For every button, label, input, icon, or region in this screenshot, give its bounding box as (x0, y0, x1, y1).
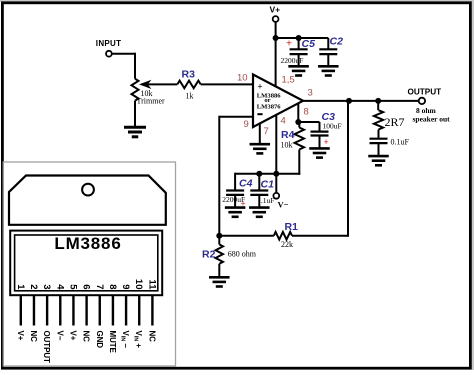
svg-text:NC: NC (147, 331, 156, 343)
svg-text:MUTE: MUTE (108, 331, 117, 354)
svg-text:8: 8 (304, 107, 309, 118)
svg-text:1k: 1k (186, 92, 194, 101)
svg-text:0.1uF: 0.1uF (391, 138, 410, 147)
svg-text:100uF: 100uF (323, 122, 342, 131)
svg-text:NC: NC (29, 331, 38, 343)
svg-text:.1uF: .1uF (261, 196, 275, 205)
svg-text:1: 1 (15, 284, 26, 290)
svg-text:+: + (257, 83, 262, 93)
svg-text:9: 9 (120, 284, 131, 289)
svg-text:OUTPUT: OUTPUT (408, 88, 442, 97)
svg-text:V+: V+ (16, 331, 25, 341)
svg-text:LM3876: LM3876 (257, 104, 282, 111)
svg-text:9: 9 (244, 119, 249, 130)
svg-text:2: 2 (28, 284, 39, 289)
svg-text:V+: V+ (68, 331, 77, 341)
svg-text:3: 3 (41, 284, 52, 289)
svg-text:speaker out: speaker out (413, 115, 451, 124)
svg-text:8: 8 (107, 284, 118, 289)
svg-text:10: 10 (237, 73, 248, 84)
svg-text:C2: C2 (330, 36, 344, 48)
svg-text:R1: R1 (285, 221, 299, 233)
svg-text:V−: V− (55, 331, 64, 341)
svg-text:OUTPUT: OUTPUT (42, 331, 51, 364)
svg-text:7: 7 (264, 126, 269, 137)
svg-text:+: + (241, 199, 246, 209)
svg-text:Trimmer: Trimmer (137, 97, 165, 106)
svg-text:6: 6 (81, 284, 92, 289)
svg-text:22k: 22k (281, 240, 293, 249)
svg-text:V−: V− (278, 200, 289, 210)
svg-text:680 ohm: 680 ohm (228, 250, 257, 259)
svg-text:R3: R3 (182, 69, 196, 81)
svg-text:C5: C5 (302, 38, 316, 50)
svg-text:GND: GND (95, 331, 104, 349)
svg-text:NC: NC (82, 331, 91, 343)
svg-text:10: 10 (133, 279, 144, 290)
svg-text:7: 7 (94, 284, 105, 289)
svg-text:10k: 10k (281, 141, 293, 150)
svg-text:2200uF: 2200uF (281, 56, 304, 65)
svg-text:+: + (324, 137, 329, 147)
svg-text:3: 3 (308, 88, 313, 99)
svg-text:11: 11 (146, 279, 157, 290)
svg-text:LM3886: LM3886 (54, 234, 121, 253)
svg-text:4: 4 (281, 116, 286, 127)
svg-text:4: 4 (54, 284, 65, 290)
svg-text:R2: R2 (202, 249, 216, 261)
svg-text:+: + (286, 38, 292, 49)
svg-text:C4: C4 (239, 178, 253, 190)
svg-text:V+: V+ (270, 5, 281, 15)
svg-text:2R7: 2R7 (385, 115, 405, 129)
svg-text:INPUT: INPUT (96, 39, 122, 48)
svg-text:5: 5 (67, 284, 78, 290)
svg-text:R4: R4 (281, 129, 295, 141)
svg-text:C1: C1 (261, 179, 275, 191)
svg-text:1,5: 1,5 (282, 75, 295, 86)
